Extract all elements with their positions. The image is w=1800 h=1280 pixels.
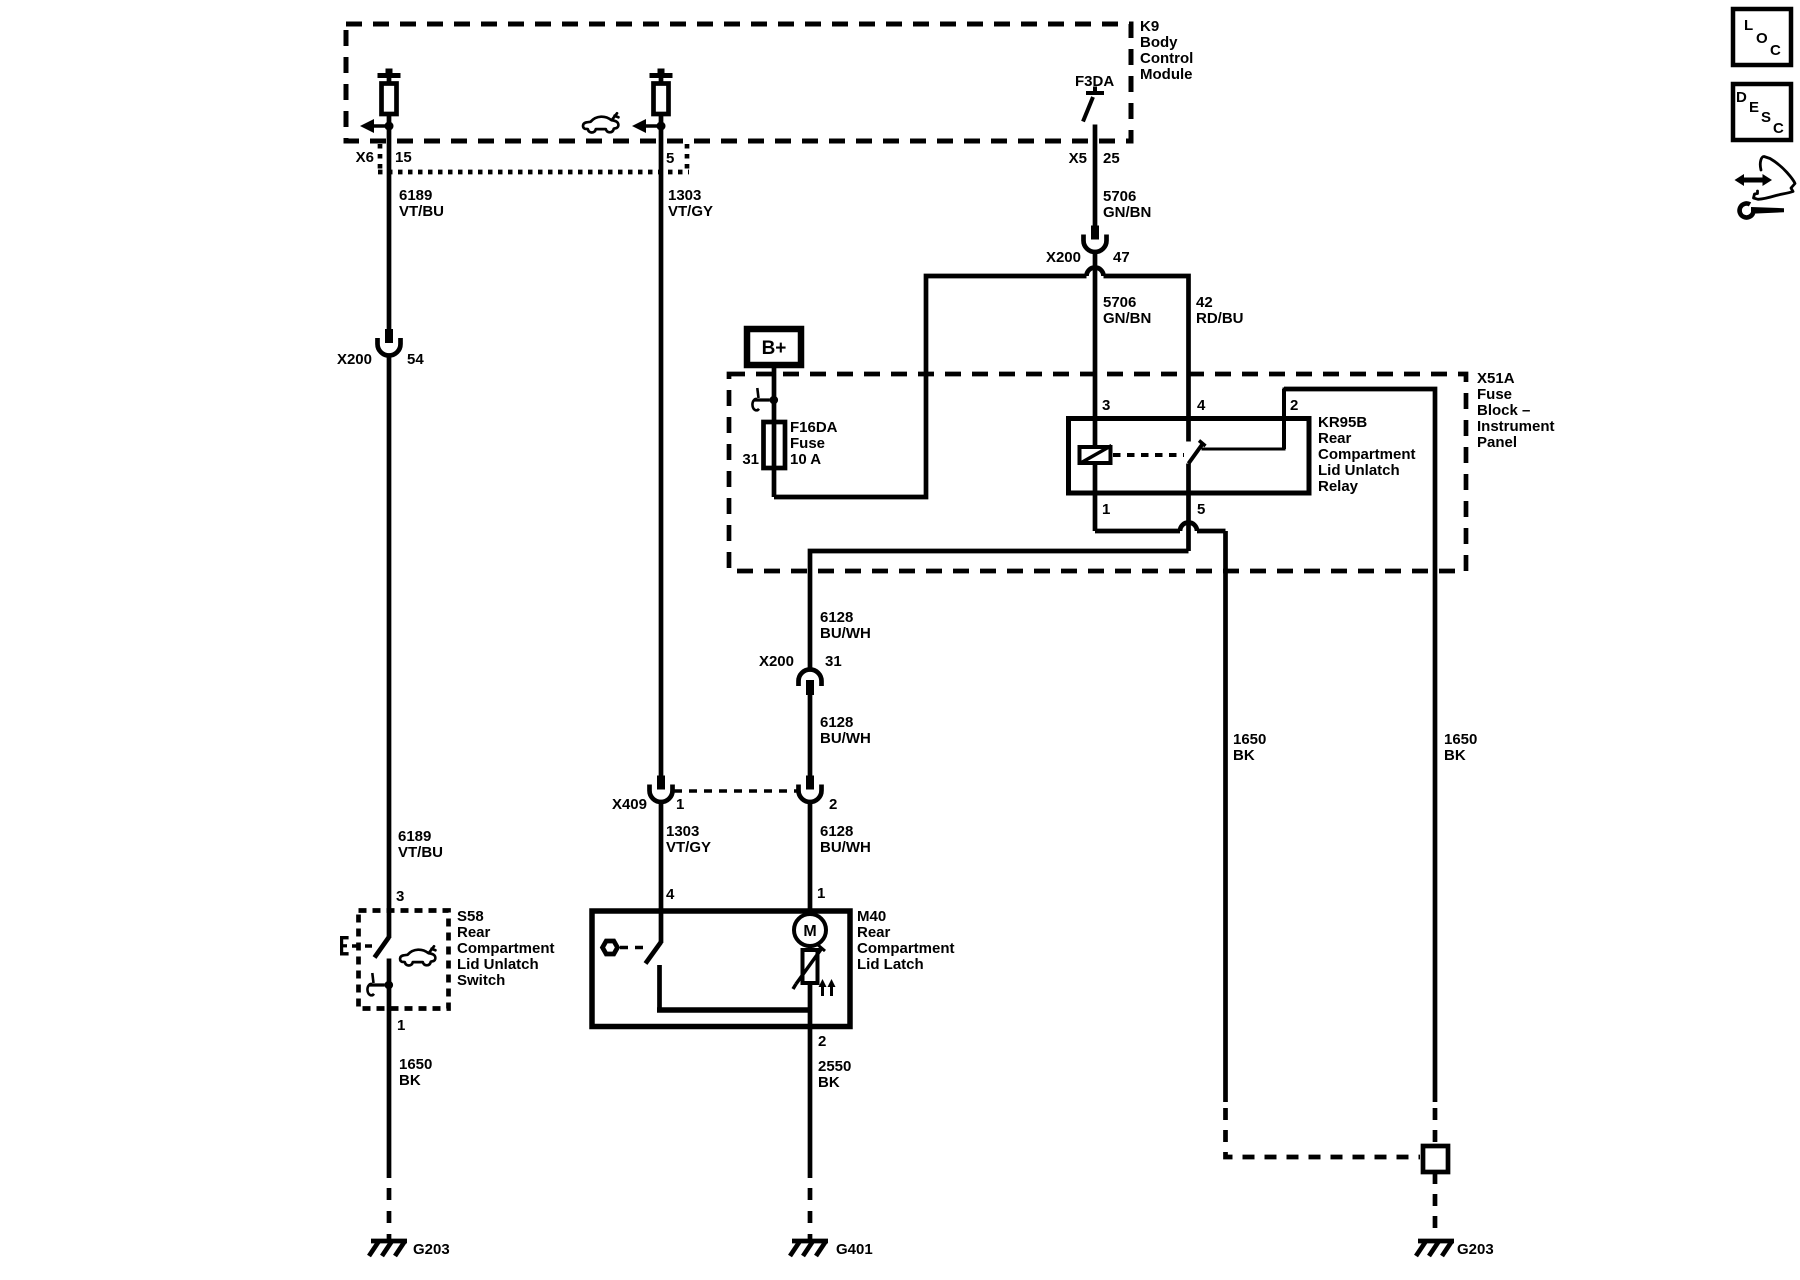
svg-text:BU/WH: BU/WH (820, 730, 871, 747)
svg-text:2: 2 (1290, 397, 1298, 414)
svg-text:Lid Unlatch: Lid Unlatch (1318, 462, 1400, 479)
svg-text:6189: 6189 (399, 187, 432, 204)
svg-text:1650: 1650 (1233, 731, 1266, 748)
svg-text:3: 3 (1102, 397, 1110, 414)
svg-text:C: C (1770, 42, 1781, 59)
svg-text:1: 1 (817, 885, 825, 902)
svg-text:6128: 6128 (820, 823, 853, 840)
svg-text:Panel: Panel (1477, 434, 1517, 451)
svg-text:1303: 1303 (666, 823, 699, 840)
svg-text:25: 25 (1103, 150, 1120, 167)
svg-text:B+: B+ (762, 338, 787, 359)
svg-text:1: 1 (676, 796, 684, 813)
svg-text:1650: 1650 (1444, 731, 1477, 748)
svg-text:C: C (1773, 120, 1784, 137)
svg-text:2550: 2550 (818, 1058, 851, 1075)
svg-text:Rear: Rear (457, 924, 491, 941)
svg-text:GN/BN: GN/BN (1103, 204, 1151, 221)
svg-text:Module: Module (1140, 66, 1193, 83)
svg-text:GN/BN: GN/BN (1103, 310, 1151, 327)
svg-text:5: 5 (1197, 501, 1205, 518)
svg-text:Fuse: Fuse (1477, 386, 1512, 403)
svg-text:RD/BU: RD/BU (1196, 310, 1244, 327)
svg-text:1: 1 (1102, 501, 1110, 518)
svg-text:1: 1 (397, 1017, 405, 1034)
svg-text:VT/BU: VT/BU (399, 203, 444, 220)
svg-text:Block –: Block – (1477, 402, 1530, 419)
svg-text:Compartment: Compartment (857, 940, 955, 957)
svg-text:G203: G203 (413, 1241, 450, 1258)
svg-text:X409: X409 (612, 796, 647, 813)
svg-text:Lid Unlatch: Lid Unlatch (457, 956, 539, 973)
svg-text:G203: G203 (1457, 1241, 1494, 1258)
svg-text:Compartment: Compartment (1318, 446, 1416, 463)
svg-text:BK: BK (399, 1072, 421, 1089)
svg-text:G401: G401 (836, 1241, 873, 1258)
svg-text:5: 5 (666, 150, 674, 167)
svg-text:42: 42 (1196, 294, 1213, 311)
svg-text:Body: Body (1140, 34, 1178, 51)
svg-text:VT/BU: VT/BU (398, 844, 443, 861)
svg-text:54: 54 (407, 351, 424, 368)
svg-text:Rear: Rear (1318, 430, 1352, 447)
svg-text:L: L (1744, 17, 1753, 34)
svg-text:M: M (803, 923, 816, 940)
svg-text:10 A: 10 A (790, 451, 821, 468)
svg-text:Compartment: Compartment (457, 940, 555, 957)
svg-text:F16DA: F16DA (790, 419, 838, 436)
svg-text:S58: S58 (457, 908, 484, 925)
svg-text:X51A: X51A (1477, 370, 1515, 387)
svg-text:F3DA: F3DA (1075, 73, 1114, 90)
svg-text:X200: X200 (759, 653, 794, 670)
svg-text:X200: X200 (1046, 249, 1081, 266)
svg-text:S: S (1761, 109, 1771, 126)
svg-text:X5: X5 (1069, 150, 1087, 167)
svg-text:Relay: Relay (1318, 478, 1359, 495)
svg-text:VT/GY: VT/GY (666, 839, 711, 856)
svg-text:15: 15 (395, 149, 412, 166)
svg-text:4: 4 (1197, 397, 1206, 414)
svg-text:Fuse: Fuse (790, 435, 825, 452)
svg-text:VT/GY: VT/GY (668, 203, 713, 220)
svg-text:5706: 5706 (1103, 294, 1136, 311)
svg-text:4: 4 (666, 886, 675, 903)
svg-text:KR95B: KR95B (1318, 414, 1367, 431)
svg-text:Lid Latch: Lid Latch (857, 956, 924, 973)
svg-text:6128: 6128 (820, 609, 853, 626)
svg-text:D: D (1736, 89, 1747, 106)
svg-text:BU/WH: BU/WH (820, 839, 871, 856)
svg-text:M40: M40 (857, 908, 886, 925)
svg-text:3: 3 (396, 888, 404, 905)
svg-text:E: E (1749, 99, 1759, 116)
svg-text:X6: X6 (356, 149, 374, 166)
svg-text:6128: 6128 (820, 714, 853, 731)
svg-text:Rear: Rear (857, 924, 891, 941)
svg-text:Instrument: Instrument (1477, 418, 1555, 435)
svg-text:BU/WH: BU/WH (820, 625, 871, 642)
svg-text:O: O (1756, 30, 1768, 47)
svg-text:Control: Control (1140, 50, 1193, 67)
svg-text:5706: 5706 (1103, 188, 1136, 205)
svg-text:BK: BK (1233, 747, 1255, 764)
svg-text:1650: 1650 (399, 1056, 432, 1073)
svg-text:K9: K9 (1140, 18, 1159, 35)
svg-text:Switch: Switch (457, 972, 505, 989)
svg-text:2: 2 (829, 796, 837, 813)
svg-text:2: 2 (818, 1033, 826, 1050)
svg-text:BK: BK (1444, 747, 1466, 764)
svg-text:31: 31 (742, 451, 759, 468)
svg-text:6189: 6189 (398, 828, 431, 845)
svg-text:47: 47 (1113, 249, 1130, 266)
svg-text:31: 31 (825, 653, 842, 670)
svg-text:X200: X200 (337, 351, 372, 368)
svg-text:1303: 1303 (668, 187, 701, 204)
svg-text:BK: BK (818, 1074, 840, 1091)
